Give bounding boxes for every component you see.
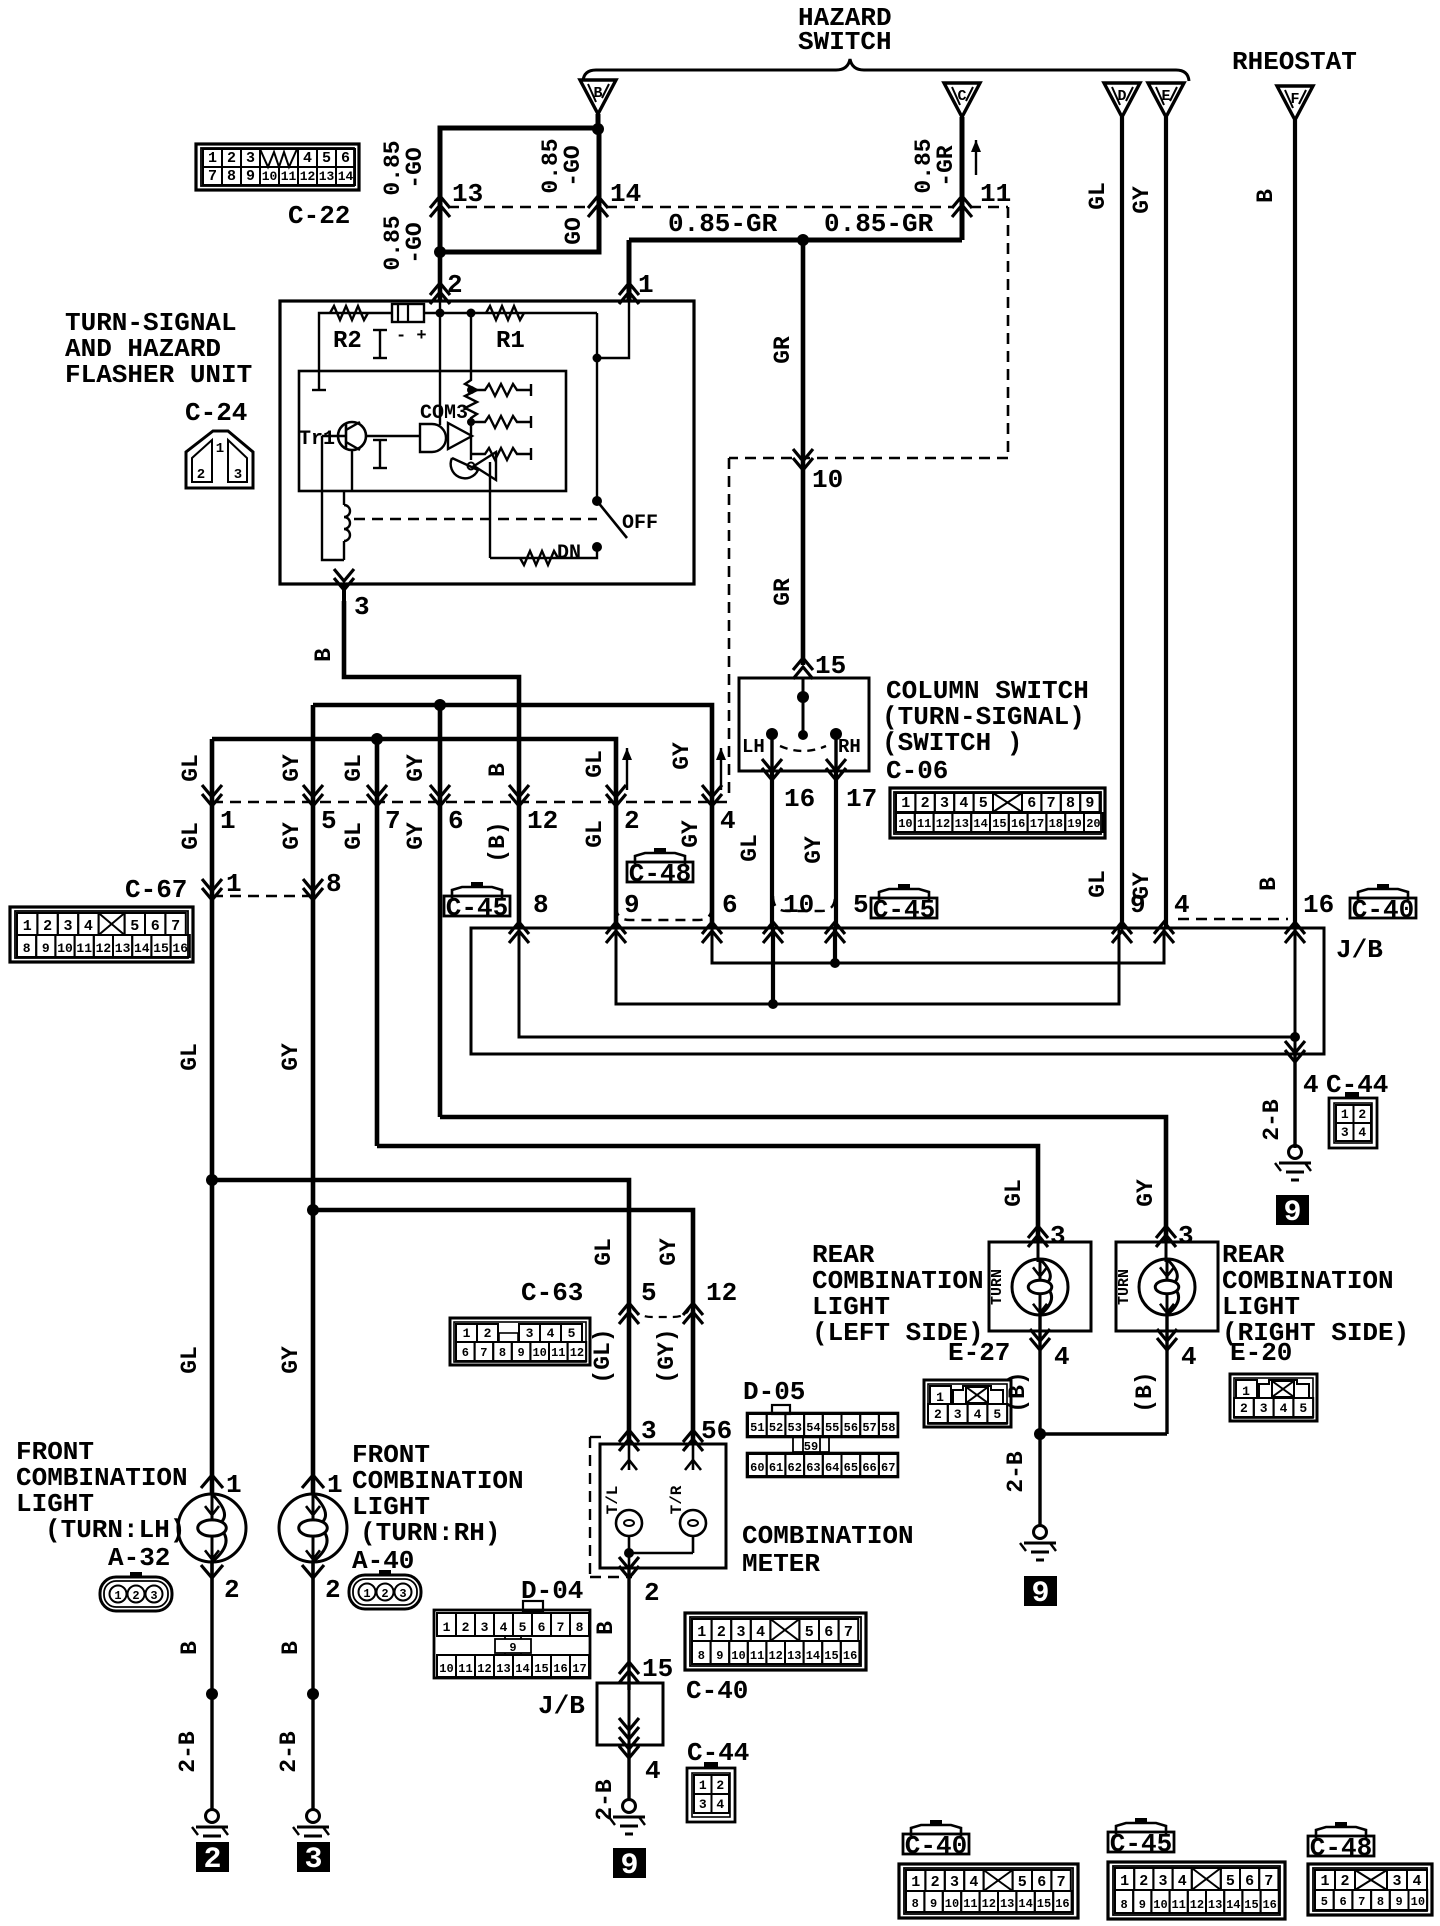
svg-text:1: 1 xyxy=(114,1589,121,1603)
svg-text:10: 10 xyxy=(1411,1895,1425,1909)
svg-text:16: 16 xyxy=(1011,817,1025,831)
wire Tr1 base xyxy=(322,435,346,437)
svg-text:11: 11 xyxy=(963,1897,977,1911)
svg-text:1: 1 xyxy=(220,806,236,836)
connector pin 13 chevron xyxy=(430,196,450,217)
svg-text:2-B: 2-B xyxy=(1259,1099,1285,1141)
connector C-22 xyxy=(196,144,359,190)
svg-text:B: B xyxy=(593,1621,619,1635)
svg-text:4: 4 xyxy=(720,806,736,836)
flasher dashed control line xyxy=(354,518,597,520)
svg-text:5: 5 xyxy=(130,918,139,935)
svg-text:(GL): (GL) xyxy=(590,1328,616,1383)
svg-text:16: 16 xyxy=(1262,1898,1276,1912)
wire switch bottom xyxy=(490,547,597,558)
C-45 dashed bracket LH RH xyxy=(773,896,835,911)
svg-text:2: 2 xyxy=(1358,1107,1366,1122)
connector D-05 xyxy=(772,1405,790,1414)
svg-text:5: 5 xyxy=(641,1278,657,1308)
svg-text:16: 16 xyxy=(553,1662,567,1676)
bulb rear right xyxy=(1165,1242,1168,1262)
wire B through J/B xyxy=(1294,928,1297,1054)
svg-text:GL: GL xyxy=(591,1238,617,1266)
svg-text:GR: GR xyxy=(770,336,796,364)
svg-text:5: 5 xyxy=(805,1624,814,1641)
svg-text:GY: GY xyxy=(678,820,704,848)
junction block J/B xyxy=(471,928,1324,1054)
svg-text:2: 2 xyxy=(224,1575,240,1605)
svg-text:11: 11 xyxy=(551,1346,565,1360)
connector C-24 xyxy=(186,431,253,488)
svg-text:1: 1 xyxy=(327,1470,343,1500)
svg-text:C-06: C-06 xyxy=(886,756,948,786)
pin5 chevron xyxy=(619,1303,639,1324)
svg-text:1: 1 xyxy=(638,270,654,300)
svg-text:9: 9 xyxy=(930,1897,937,1911)
harness dashed right of 4 xyxy=(1178,918,1288,920)
node GL tee xyxy=(371,733,383,745)
wire GY meter branch xyxy=(313,1210,693,1444)
svg-text:12: 12 xyxy=(1190,1898,1204,1912)
wire GL front xyxy=(210,1180,215,1495)
svg-text:GY: GY xyxy=(1133,1179,1159,1207)
svg-text:17: 17 xyxy=(846,784,877,814)
node rail B xyxy=(1290,1032,1300,1042)
svg-text:51: 51 xyxy=(750,1421,764,1435)
svg-text:2: 2 xyxy=(931,1874,940,1891)
svg-text:GL: GL xyxy=(341,822,367,850)
svg-text:4: 4 xyxy=(645,1756,661,1786)
svg-text:4: 4 xyxy=(1054,1342,1070,1372)
svg-text:6: 6 xyxy=(1339,1895,1346,1909)
connector E-20 xyxy=(1230,1374,1317,1421)
J/B small exit xyxy=(627,1745,630,1800)
svg-text:12: 12 xyxy=(982,1897,996,1911)
meter branch through J/B xyxy=(628,1683,631,1745)
svg-text:J/B: J/B xyxy=(538,1691,585,1721)
svg-text:6: 6 xyxy=(722,890,738,920)
node GY front branch xyxy=(307,1204,319,1216)
dashed bracket C-63 xyxy=(633,1309,689,1317)
svg-text:5: 5 xyxy=(1321,1895,1328,1909)
svg-text:8: 8 xyxy=(1066,795,1075,812)
connector C-06 xyxy=(890,788,1105,838)
ground rear xyxy=(1034,1526,1047,1539)
wire front LH B xyxy=(210,1600,213,1810)
svg-text:RHEOSTAT: RHEOSTAT xyxy=(1232,47,1357,77)
switch pivot xyxy=(592,496,602,506)
pin 15 chevron xyxy=(793,658,813,679)
svg-text:GL: GL xyxy=(1001,1179,1027,1207)
svg-text:3: 3 xyxy=(354,592,370,622)
node GR branch xyxy=(797,234,809,246)
svg-text:- +: - + xyxy=(396,327,427,346)
svg-text:GY: GY xyxy=(801,836,827,864)
connector tab C-40 bottom xyxy=(930,1820,942,1826)
svg-text:7: 7 xyxy=(480,1346,487,1360)
wire GY front xyxy=(311,1210,316,1495)
harness dashed line top xyxy=(448,206,590,209)
svg-text:4: 4 xyxy=(974,1407,982,1422)
svg-text:GL: GL xyxy=(582,820,608,848)
meter lamp T/R xyxy=(692,1444,695,1470)
switch dashed arc xyxy=(780,746,826,751)
svg-text:-GO: -GO xyxy=(402,147,428,188)
svg-text:11: 11 xyxy=(458,1662,472,1676)
switch blade xyxy=(597,501,627,538)
combination meter dashed box xyxy=(589,1437,591,1577)
svg-text:5: 5 xyxy=(853,890,869,920)
svg-text:9: 9 xyxy=(624,890,640,920)
svg-text:C-44: C-44 xyxy=(687,1738,749,1768)
bulb front LH xyxy=(178,1494,246,1562)
svg-text:16: 16 xyxy=(843,1649,857,1663)
svg-text:14: 14 xyxy=(134,941,150,956)
svg-text:8: 8 xyxy=(1120,1898,1127,1912)
svg-text:GL: GL xyxy=(177,1043,203,1071)
node rear ground join xyxy=(1034,1428,1046,1440)
flasher wire right vertical xyxy=(596,313,598,501)
svg-text:15: 15 xyxy=(534,1662,548,1676)
J/B exit chevron xyxy=(1285,1041,1305,1062)
svg-text:2-B: 2-B xyxy=(592,1779,618,1821)
svg-text:DN: DN xyxy=(557,542,581,565)
harness dashed corner right xyxy=(1007,207,1010,458)
svg-text:C-48: C-48 xyxy=(1310,1833,1372,1863)
svg-text:2: 2 xyxy=(717,1624,726,1641)
svg-text:52: 52 xyxy=(769,1421,783,1435)
arrow up near 2 xyxy=(626,748,628,790)
resistor R2 xyxy=(330,306,368,320)
svg-text:GL: GL xyxy=(1085,182,1111,210)
node inner right xyxy=(593,354,602,363)
svg-text:(B): (B) xyxy=(1005,1371,1031,1412)
svg-text:4: 4 xyxy=(1358,1125,1366,1140)
svg-text:11: 11 xyxy=(750,1649,764,1663)
J/B chevrons top xyxy=(509,922,529,943)
pin 11 chevron xyxy=(952,196,972,217)
svg-text:3: 3 xyxy=(150,1589,157,1603)
svg-text:GL: GL xyxy=(177,1346,203,1374)
flasher wire top-right xyxy=(424,312,597,314)
connector C-44 mid xyxy=(687,1768,735,1822)
svg-text:16: 16 xyxy=(1055,1897,1069,1911)
svg-text:GL: GL xyxy=(582,750,608,778)
wire from terminal C xyxy=(960,117,965,240)
svg-text:2-B: 2-B xyxy=(175,1731,201,1773)
svg-text:1: 1 xyxy=(1120,1873,1129,1890)
svg-text:-GO: -GO xyxy=(402,222,428,263)
node switch feed xyxy=(797,691,809,703)
wire pin1 to flasher xyxy=(627,240,632,301)
svg-text:14: 14 xyxy=(973,817,987,831)
svg-text:56: 56 xyxy=(844,1421,858,1435)
connector tab C-40 mid right xyxy=(1377,884,1389,890)
svg-text:4: 4 xyxy=(303,150,312,167)
ground number 9 meter xyxy=(613,1848,646,1878)
svg-text:8: 8 xyxy=(912,1897,919,1911)
svg-text:16: 16 xyxy=(172,941,188,956)
front RH pin1 chevron xyxy=(302,1475,324,1488)
svg-text:3: 3 xyxy=(1392,1873,1401,1890)
svg-text:5: 5 xyxy=(519,1620,527,1635)
svg-text:T/R: T/R xyxy=(668,1485,686,1514)
svg-text:14: 14 xyxy=(338,169,354,184)
flasher wire pin1 inside xyxy=(597,301,629,358)
svg-text:4: 4 xyxy=(1280,1401,1288,1416)
svg-text:6: 6 xyxy=(448,806,464,836)
svg-text:8: 8 xyxy=(1377,1895,1384,1909)
svg-text:GY: GY xyxy=(278,1043,304,1071)
wire GL to rear left xyxy=(377,1146,1038,1242)
pin3 chevron meter xyxy=(619,1430,639,1451)
svg-text:10: 10 xyxy=(57,941,73,956)
combination meter box xyxy=(600,1444,726,1568)
svg-text:10: 10 xyxy=(945,1897,959,1911)
svg-text:5: 5 xyxy=(568,1326,576,1341)
svg-text:3: 3 xyxy=(1260,1401,1268,1416)
svg-text:GL: GL xyxy=(737,834,763,862)
rear left pin3 chevron xyxy=(1028,1226,1048,1247)
resistor ladder rails xyxy=(470,428,472,460)
svg-text:TURN: TURN xyxy=(989,1269,1006,1305)
svg-text:2: 2 xyxy=(227,150,236,167)
switch feed line xyxy=(802,678,805,736)
svg-text:3: 3 xyxy=(699,1797,707,1812)
svg-text:3: 3 xyxy=(940,795,949,812)
svg-text:C-67: C-67 xyxy=(125,875,187,905)
svg-text:C-45: C-45 xyxy=(873,895,935,925)
bulb rear left xyxy=(1037,1242,1040,1262)
svg-text:3: 3 xyxy=(246,150,255,167)
pin 17 chevron xyxy=(834,771,838,928)
svg-text:GO: GO xyxy=(561,217,587,245)
node LH xyxy=(206,1688,218,1700)
svg-text:10: 10 xyxy=(532,1346,546,1360)
svg-text:3: 3 xyxy=(526,1326,534,1341)
svg-text:10: 10 xyxy=(731,1649,745,1663)
svg-text:6: 6 xyxy=(1037,1874,1046,1891)
svg-text:GL: GL xyxy=(1085,870,1111,898)
svg-text:4: 4 xyxy=(500,1620,508,1635)
svg-text:12: 12 xyxy=(96,941,112,956)
svg-text:13: 13 xyxy=(452,179,483,209)
svg-text:4: 4 xyxy=(84,918,93,935)
flasher unit box C-24 xyxy=(280,301,694,584)
front LH pin2 chevron xyxy=(210,1562,214,1600)
connector tab C-48 mid xyxy=(654,848,666,854)
svg-text:2: 2 xyxy=(197,467,205,483)
svg-text:C-40: C-40 xyxy=(686,1676,748,1706)
svg-text:3: 3 xyxy=(736,1624,745,1641)
svg-text:COMBINATION: COMBINATION xyxy=(742,1521,914,1551)
wire rear join xyxy=(1040,1432,1167,1436)
ground meter branch xyxy=(623,1800,636,1813)
svg-text:9: 9 xyxy=(1283,1196,1301,1230)
svg-text:D: D xyxy=(1117,88,1126,105)
svg-text:11: 11 xyxy=(917,817,931,831)
contact LH xyxy=(766,728,778,740)
node GL front branch xyxy=(206,1174,218,1186)
svg-text:GL: GL xyxy=(178,822,204,850)
node box top right xyxy=(592,123,604,135)
wire rear 2-B xyxy=(1038,1434,1041,1525)
svg-text:J/B: J/B xyxy=(1336,935,1383,965)
svg-text:14: 14 xyxy=(806,1649,820,1663)
svg-text:1: 1 xyxy=(226,1470,242,1500)
connector A-40 xyxy=(349,1575,421,1609)
wire 0.85-GR horizontal xyxy=(629,238,962,243)
svg-text:LH: LH xyxy=(742,736,765,758)
rear right pin4 chevron xyxy=(1157,1329,1177,1350)
node R rail xyxy=(436,309,445,318)
svg-text:B: B xyxy=(593,85,602,102)
svg-text:(B): (B) xyxy=(1132,1371,1158,1412)
svg-text:66: 66 xyxy=(862,1461,876,1475)
svg-text:2: 2 xyxy=(447,270,463,300)
connector C-40 mid xyxy=(685,1613,866,1670)
svg-text:1: 1 xyxy=(208,150,217,167)
resistor ladder vertical xyxy=(465,313,477,428)
svg-text:9: 9 xyxy=(1396,1895,1403,1909)
svg-text:1: 1 xyxy=(911,1874,920,1891)
svg-text:4: 4 xyxy=(716,1797,724,1812)
svg-text:2: 2 xyxy=(484,1326,492,1341)
svg-text:-GO: -GO xyxy=(560,145,586,186)
rear left pin4 chevron xyxy=(1030,1329,1050,1350)
switch contact DN xyxy=(592,542,602,552)
svg-text:10: 10 xyxy=(1153,1898,1167,1912)
svg-text:4: 4 xyxy=(1303,1070,1319,1100)
gate lower xyxy=(451,458,478,478)
svg-text:14: 14 xyxy=(1018,1897,1032,1911)
svg-text:4: 4 xyxy=(547,1326,555,1341)
svg-text:10: 10 xyxy=(783,890,814,920)
wire GY from terminal E xyxy=(1164,117,1168,928)
svg-text:METER: METER xyxy=(742,1549,820,1579)
connector E-27 xyxy=(924,1380,1011,1427)
svg-text:12: 12 xyxy=(300,169,316,184)
svg-text:4: 4 xyxy=(969,1874,978,1891)
wire front RH B xyxy=(311,1600,314,1810)
bulb front RH xyxy=(279,1494,347,1562)
svg-text:E-20: E-20 xyxy=(1230,1338,1292,1368)
wire pin2 inside xyxy=(439,301,441,425)
svg-text:3: 3 xyxy=(304,1843,322,1877)
svg-text:3: 3 xyxy=(1050,1221,1066,1251)
svg-text:R1: R1 xyxy=(496,328,525,355)
horizontal GY rail xyxy=(313,705,712,928)
chevrons middle dashed xyxy=(202,785,222,806)
resistor row 2 xyxy=(471,416,531,428)
pin 16 chevron xyxy=(770,771,774,928)
svg-text:3: 3 xyxy=(950,1874,959,1891)
svg-text:17: 17 xyxy=(1030,817,1044,831)
svg-text:GY: GY xyxy=(279,822,305,850)
column switch box xyxy=(739,678,869,771)
svg-text:11: 11 xyxy=(76,941,92,956)
svg-text:A-32: A-32 xyxy=(108,1543,170,1573)
svg-text:12: 12 xyxy=(936,817,950,831)
svg-text:15: 15 xyxy=(1244,1898,1258,1912)
svg-text:12: 12 xyxy=(570,1346,584,1360)
wire rear right down xyxy=(1165,1360,1168,1434)
svg-text:15: 15 xyxy=(824,1649,838,1663)
svg-text:D-05: D-05 xyxy=(743,1377,805,1407)
connector tab C-45 mid left xyxy=(471,882,483,888)
svg-text:7: 7 xyxy=(1358,1895,1365,1909)
wire pin3 exit xyxy=(342,584,346,601)
svg-text:5: 5 xyxy=(322,150,331,167)
svg-text:15: 15 xyxy=(642,1654,673,1684)
pin 2 chevron xyxy=(430,283,450,304)
svg-text:E-27: E-27 xyxy=(948,1338,1010,1368)
svg-text:GL: GL xyxy=(341,754,367,782)
svg-text:12: 12 xyxy=(768,1649,782,1663)
wire GY to rear right xyxy=(440,1117,1166,1242)
svg-text:10: 10 xyxy=(262,169,278,184)
svg-text:58: 58 xyxy=(881,1421,895,1435)
svg-text:GL: GL xyxy=(178,754,204,782)
svg-text:C-22: C-22 xyxy=(288,201,350,231)
rear combination light left box xyxy=(989,1242,1091,1331)
J/B rail B xyxy=(519,928,1295,1037)
svg-text:3: 3 xyxy=(399,1587,406,1601)
svg-text:55: 55 xyxy=(825,1421,839,1435)
brace hazard switch xyxy=(583,59,1189,81)
svg-text:8: 8 xyxy=(576,1620,584,1635)
harness dashed line C-67 xyxy=(212,895,313,898)
svg-text:15: 15 xyxy=(992,817,1006,831)
svg-text:3: 3 xyxy=(954,1407,962,1422)
svg-text:2: 2 xyxy=(43,918,52,935)
svg-text:6: 6 xyxy=(538,1620,546,1635)
svg-text:6: 6 xyxy=(1027,795,1036,812)
ground number 3 xyxy=(297,1842,330,1872)
svg-text:C-40: C-40 xyxy=(905,1831,967,1861)
svg-text:1: 1 xyxy=(1320,1873,1329,1890)
svg-text:5: 5 xyxy=(1226,1873,1235,1890)
svg-text:SWITCH: SWITCH xyxy=(798,27,892,57)
pin 3 chevron xyxy=(334,569,354,590)
wire GR upper xyxy=(801,240,806,665)
wire GL meter branch xyxy=(212,1180,629,1444)
svg-text:63: 63 xyxy=(806,1461,820,1475)
svg-text:1: 1 xyxy=(443,1620,451,1635)
svg-text:COM3: COM3 xyxy=(420,402,468,425)
meter lamp T/L xyxy=(628,1444,631,1470)
terminal F xyxy=(1277,86,1313,120)
svg-text:53: 53 xyxy=(788,1421,802,1435)
harness dashed line middle xyxy=(212,801,729,804)
svg-text:20: 20 xyxy=(1086,817,1100,831)
svg-text:15: 15 xyxy=(1037,1897,1051,1911)
svg-text:3: 3 xyxy=(481,1620,489,1635)
svg-text:(TURN:LH): (TURN:LH) xyxy=(45,1515,185,1545)
svg-text:C-45: C-45 xyxy=(446,893,508,923)
svg-text:6: 6 xyxy=(824,1624,833,1641)
meter lamp wires join xyxy=(628,1536,631,1553)
svg-text:8: 8 xyxy=(698,1649,705,1663)
svg-text:4: 4 xyxy=(1178,1873,1187,1890)
svg-text:13: 13 xyxy=(1000,1897,1014,1911)
node rail GY xyxy=(830,958,840,968)
svg-text:2: 2 xyxy=(716,1778,724,1793)
relay coil xyxy=(344,505,350,541)
svg-text:12: 12 xyxy=(706,1278,737,1308)
svg-text:2: 2 xyxy=(462,1620,470,1635)
svg-text:9: 9 xyxy=(716,1649,723,1663)
